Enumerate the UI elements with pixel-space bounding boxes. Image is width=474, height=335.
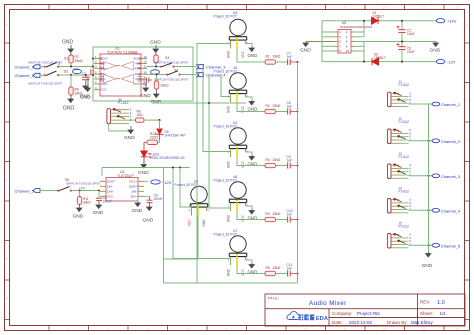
ground left of M1 (300, 42, 311, 54)
svg-text:REV:: REV: (420, 300, 430, 305)
M1 right pin stubs (351, 32, 355, 51)
svg-text:GND: GND (226, 214, 230, 222)
diode D2 (371, 53, 386, 66)
ground under LED1 (138, 157, 149, 176)
svg-text:3OUT: 3OUT (133, 82, 140, 86)
svg-text:Channel_1: Channel_1 (441, 102, 461, 107)
svg-text:R4: R4 (266, 212, 270, 216)
svg-text:Audio Mixer: Audio Mixer (309, 300, 347, 307)
jack J1 labels (399, 80, 410, 87)
svg-text:SWITCH TOGGLE SPST: SWITCH TOGGLE SPST (66, 182, 100, 186)
svg-text:GND: GND (226, 160, 230, 168)
svg-text:TITLE:: TITLE: (267, 296, 279, 301)
ground at U7 right pin (246, 260, 258, 275)
capacitor C8 (287, 101, 298, 115)
op-amp U1 amp B (121, 62, 134, 71)
wire U7 wiper to R5 (237, 266, 265, 274)
U3 left pin stubs (100, 181, 106, 196)
wire U4 input (180, 168, 192, 208)
svg-text:PJ-612: PJ-612 (399, 120, 410, 124)
svg-text:Channel_5: Channel_5 (441, 243, 461, 248)
junction M1 out top (363, 20, 365, 22)
switch S2 (28, 69, 68, 85)
flag Channel_3 output (432, 174, 461, 179)
resistor R8 (69, 87, 83, 96)
switch S5 (57, 178, 100, 192)
svg-text:9: 9 (344, 327, 346, 331)
jack J6 labels (118, 98, 129, 105)
flag Channel_1 (15, 65, 41, 70)
svg-text:2IN+: 2IN+ (101, 72, 107, 76)
svg-text:SWITCH TOGGLE SPST: SWITCH TOGGLE SPST (154, 77, 188, 81)
svg-text:1IN-: 1IN- (107, 184, 113, 188)
svg-text:GND: GND (73, 214, 84, 220)
title block texts (267, 296, 446, 325)
svg-text:PJ-612: PJ-612 (399, 83, 410, 87)
svg-text:32101000G040K00A01: 32101000G040K00A01 (340, 25, 373, 29)
svg-text:1uF: 1uF (287, 104, 293, 108)
svg-text:1.0: 1.0 (437, 300, 445, 306)
jack J6 body (107, 108, 132, 124)
ground under R8 (63, 95, 75, 112)
svg-text:2: 2 (68, 6, 70, 10)
resistor R5 (265, 266, 281, 276)
U1 pin names right column (133, 57, 140, 86)
svg-text:3IN+: 3IN+ (135, 72, 141, 76)
U1 pin names left column (101, 57, 108, 92)
svg-text:4: 4 (147, 327, 149, 331)
U3 right pin names (129, 184, 137, 198)
svg-text:Project #62: Project #62 (357, 311, 380, 316)
wire J1 to flag (409, 103, 433, 105)
svg-text:11: 11 (422, 6, 426, 10)
svg-text:GND: GND (202, 219, 206, 227)
svg-text:VCC-: VCC- (101, 88, 107, 92)
wire U7 input (173, 168, 231, 266)
junction M1 out bottom (363, 61, 365, 63)
svg-text:4IN+: 4IN+ (135, 66, 141, 70)
potentiometer U5 (214, 11, 249, 58)
svg-text:5: 5 (186, 327, 188, 331)
svg-text:Channel_3: Channel_3 (441, 174, 461, 179)
wire U5 wiper to R1 (237, 49, 265, 62)
svg-text:2IN-: 2IN- (101, 77, 106, 81)
op-amp U1 amp C (104, 75, 117, 84)
svg-text:2IN+: 2IN+ (131, 194, 138, 198)
wire down to U3 top (101, 168, 103, 177)
svg-text:33kΩ: 33kΩ (273, 104, 281, 108)
svg-text:Company:: Company: (332, 311, 353, 316)
svg-text:GND: GND (143, 218, 154, 224)
junction C5 top (98, 190, 100, 192)
svg-text:2: 2 (59, 62, 61, 66)
wire U6 wiper to R2 (237, 103, 265, 112)
ground wire into M1 pin 5 (306, 41, 334, 43)
svg-text:3IN-: 3IN- (135, 77, 140, 81)
wire -12V rail (322, 61, 370, 63)
wires M1 left pins to vertical (322, 32, 334, 51)
svg-text:VCC-: VCC- (107, 194, 114, 198)
op-amp U1 labels (107, 47, 137, 55)
svg-text:EDA: EDA (316, 316, 329, 322)
ground at U2 right pin (246, 152, 258, 167)
junction jack bus J4 (428, 209, 430, 211)
svg-text:E: E (6, 178, 8, 182)
flag Channel_2 output (432, 139, 461, 144)
M1 converter body (338, 30, 351, 54)
svg-text:5: 5 (186, 6, 188, 10)
capacitor C4 under U1 right (141, 78, 152, 87)
svg-text:SWITCH TOGGLE SPST: SWITCH TOGGLE SPST (28, 81, 62, 85)
svg-text:F: F (6, 218, 8, 222)
resistor R10 (154, 53, 158, 67)
resistor R4 (265, 212, 281, 222)
wire U1 to S4 (147, 74, 168, 76)
svg-text:220Ω: 220Ω (150, 136, 159, 140)
svg-text:1uF: 1uF (287, 55, 293, 59)
svg-text:GND: GND (430, 48, 441, 54)
junction C2 bottom (401, 61, 403, 63)
junction jack bus J5 (428, 244, 430, 246)
wire U8 input (209, 75, 231, 209)
ground under C5 (93, 201, 104, 216)
switch S4 (154, 69, 188, 82)
svg-text:PJ-612: PJ-612 (399, 155, 410, 159)
GND above R10 (150, 40, 161, 53)
svg-text:Project_62 POT: Project_62 POT (175, 183, 198, 187)
resistor R9 (154, 74, 169, 90)
svg-text:GND: GND (422, 263, 433, 269)
svg-text:Date:: Date: (332, 320, 343, 325)
svg-text:12: 12 (455, 327, 459, 331)
frame ruler ticks right (465, 43, 470, 320)
svg-text:GND: GND (63, 106, 75, 112)
svg-text:Max Ellzey: Max Ellzey (411, 320, 434, 325)
wires M1 right pins (355, 32, 364, 51)
svg-text:GND: GND (248, 53, 258, 58)
switch S1 (28, 57, 68, 68)
ground under J6 (109, 124, 135, 141)
svg-text:8: 8 (305, 6, 307, 10)
svg-text:Channel_1: Channel_1 (15, 65, 35, 70)
svg-text:VCC: VCC (241, 160, 245, 167)
svg-text:C3: C3 (82, 72, 86, 76)
flag Channel_4 (197, 73, 227, 78)
svg-text:S1: S1 (64, 57, 68, 61)
svg-text:14: 14 (144, 55, 148, 59)
resistor R2 (265, 104, 281, 114)
svg-text:11: 11 (422, 327, 426, 331)
svg-text:GND: GND (151, 99, 162, 105)
svg-text:3: 3 (107, 327, 109, 331)
svg-text:GND: GND (248, 107, 258, 112)
resistor R12 (144, 132, 160, 151)
wire J5 to flag (409, 244, 433, 246)
svg-text:Channel_2: Channel_2 (15, 73, 35, 78)
svg-text:100nF: 100nF (154, 197, 163, 201)
svg-text:E: E (466, 178, 468, 182)
U3 left pin names (107, 179, 115, 193)
svg-text:GND: GND (132, 208, 143, 214)
flag -12V (436, 60, 456, 65)
svg-text:I: I (7, 320, 8, 324)
junction node U1 left rail2 (92, 74, 94, 76)
svg-text:12: 12 (144, 65, 148, 69)
svg-text:GND: GND (226, 105, 230, 113)
wire U1 to S3 (147, 66, 162, 68)
LED1 (141, 151, 185, 160)
wire R3 to C9 (276, 165, 288, 167)
capacitor C2 (397, 42, 415, 62)
wire horizontal feed above U3 (102, 167, 190, 169)
wire U8 wiper to R4 (237, 212, 265, 220)
svg-text:Project_62 POT: Project_62 POT (214, 178, 237, 182)
svg-text:GND: GND (150, 40, 161, 46)
svg-text:1: 1 (28, 327, 30, 331)
junction bus row R5 (296, 272, 298, 274)
junction R10 bottom (155, 66, 157, 68)
op-amp U3 body (106, 178, 138, 202)
diode D5 zener (156, 129, 187, 140)
ground right of C1/C2 (430, 42, 441, 54)
resistor R1 (265, 54, 281, 64)
flag +12V at U3 (144, 180, 172, 185)
svg-text:1IN+: 1IN+ (101, 66, 107, 70)
flag Channel_4 output (432, 208, 461, 213)
svg-text:4: 4 (147, 6, 149, 10)
junction node (71,66.5) (70, 65, 72, 67)
svg-text:33kΩ: 33kΩ (273, 266, 281, 270)
resistor R6 (129, 110, 160, 123)
svg-text:I: I (467, 320, 468, 324)
svg-text:9: 9 (344, 6, 346, 10)
capacitor C1 (397, 21, 415, 42)
wire U5 input (197, 42, 231, 283)
U1 right pin stubs (141, 59, 147, 84)
wire J4 to flag (409, 209, 433, 211)
svg-text:R1: R1 (266, 54, 270, 58)
frame ruler ticks top (49, 5, 444, 10)
junction node U1 left rail1 (92, 66, 94, 68)
jack J4 body (387, 198, 411, 213)
wire S5 to U3 (72, 190, 100, 192)
svg-text:4OUT: 4OUT (133, 57, 140, 61)
svg-text:-12V: -12V (447, 60, 456, 65)
ground under C6 (143, 203, 154, 224)
wire U4 wiper down to bottom loop (164, 216, 199, 259)
svg-text:1/1: 1/1 (440, 311, 447, 316)
EasyEDA logo (287, 312, 329, 322)
svg-text:8: 8 (305, 327, 307, 331)
op-amp U1 amp D (121, 75, 134, 84)
svg-text:VCC+: VCC+ (129, 179, 137, 183)
junction bus row R2 (296, 110, 298, 112)
ground under C4 (140, 83, 151, 100)
svg-text:33kΩ: 33kΩ (75, 59, 83, 63)
svg-text:GND: GND (140, 93, 151, 99)
title block (265, 294, 465, 326)
svg-text:S3: S3 (165, 56, 169, 60)
ground under jacks (422, 252, 433, 269)
junction R6 out (158, 119, 160, 121)
svg-text:S2: S2 (64, 69, 68, 73)
junction bus row R4 (296, 218, 298, 220)
svg-text:2OUT: 2OUT (129, 184, 137, 188)
U1 internal pin marks (100, 63, 141, 81)
wire right collector vertical bottom (363, 42, 365, 62)
wire J3 to flag (409, 175, 433, 177)
wire R2 to C8 (276, 111, 288, 113)
wire J2 to flag (409, 140, 433, 142)
junction bus row R1 (296, 61, 298, 63)
mixing bus vertical (297, 62, 299, 283)
wire R5 to C11 (276, 273, 288, 275)
svg-text:PJ-612: PJ-612 (399, 190, 410, 194)
svg-text:7: 7 (265, 327, 267, 331)
wire channel2 to S2 (40, 74, 44, 76)
wire R1 to C7 (276, 61, 288, 63)
resistor R3 (265, 158, 281, 168)
svg-text:2022-12-02: 2022-12-02 (349, 320, 373, 325)
svg-text:10uF: 10uF (407, 32, 415, 36)
wire channel1 to S1 (40, 66, 44, 68)
GND (top of R7) (62, 40, 74, 53)
svg-text:100nF: 100nF (103, 199, 112, 203)
svg-text:Channel_2: Channel_2 (441, 139, 461, 144)
jack J5 body (387, 233, 411, 248)
svg-text:Project_62 POT: Project_62 POT (214, 232, 237, 236)
svg-text:1: 1 (169, 62, 171, 66)
wire R4 to C10 (276, 219, 288, 221)
capacitor C11 (287, 263, 298, 277)
op-amp U1 amp A (104, 62, 117, 71)
junction U7 feed (172, 167, 174, 169)
M1 left pin stubs (334, 32, 338, 51)
middle GND rail through C1 C2 (355, 41, 436, 43)
svg-text:1kΩ: 1kΩ (137, 113, 143, 117)
svg-text:GND: GND (226, 268, 230, 276)
svg-text:GND: GND (226, 50, 230, 58)
jack J3 body (387, 163, 411, 178)
junction node U1 left top (92, 58, 94, 60)
wire left supply vertical (321, 21, 323, 62)
U3 right pin stubs (138, 181, 144, 196)
svg-text:6: 6 (226, 327, 228, 331)
junction jack bus J2 (428, 140, 430, 142)
svg-text:10uF: 10uF (407, 50, 415, 54)
U1 pin-end red marks (100, 58, 141, 80)
capacitor C10 (287, 209, 298, 223)
junction C2 mid (401, 41, 403, 43)
potentiometer U2 (214, 121, 249, 168)
wire S1 to U1 (59, 66, 93, 68)
junction on feed wire (179, 166, 181, 168)
svg-text:4IN-: 4IN- (135, 61, 140, 65)
svg-text:33kΩ: 33kΩ (273, 54, 281, 58)
svg-text:GND: GND (93, 210, 104, 216)
svg-text:SWITCH TOGGLE SPST: SWITCH TOGGLE SPST (154, 60, 188, 64)
ground left of U1 (80, 77, 91, 101)
net port oval U1 right (151, 70, 160, 74)
svg-text:VCC: VCC (241, 268, 245, 275)
svg-text:33kΩ: 33kΩ (161, 83, 169, 87)
svg-text:33kΩ: 33kΩ (273, 212, 281, 216)
U1 pin numbers left (95, 55, 97, 90)
svg-text:2IN-: 2IN- (131, 189, 137, 193)
svg-text:VCC: VCC (241, 50, 245, 57)
junction bus row R3 (296, 164, 298, 166)
svg-text:Project_62 POT: Project_62 POT (214, 124, 237, 128)
ground at U6 right pin (246, 97, 258, 112)
svg-text:33kΩ: 33kΩ (273, 158, 281, 162)
ground under R9 (151, 89, 162, 105)
capacitor C9 (287, 155, 298, 169)
svg-text:R3: R3 (266, 158, 270, 162)
svg-text:GND: GND (80, 95, 91, 101)
ground at U5 right pin (246, 44, 258, 59)
potentiometer U6 (214, 66, 249, 113)
wire S4 to flag (181, 74, 197, 76)
junction jack bus J3 (428, 175, 430, 177)
svg-text:F: F (466, 218, 468, 222)
svg-text:GND: GND (62, 40, 74, 46)
jack J3 labels (399, 152, 410, 159)
wire channel5 to S5 (40, 190, 57, 192)
ground at U8 right pin (246, 206, 258, 221)
svg-text:GND: GND (300, 48, 311, 54)
svg-text:1OUT: 1OUT (107, 179, 115, 183)
svg-text:10: 10 (383, 6, 387, 10)
svg-text:Project_62 POT: Project_62 POT (214, 14, 237, 18)
net port oval (73, 67, 82, 74)
resistor R7 (69, 53, 83, 67)
U1 left pin stubs (94, 59, 100, 90)
svg-text:R5: R5 (266, 266, 270, 270)
svg-text:VCC: VCC (187, 219, 191, 226)
wire U2 input (203, 67, 231, 152)
svg-text:1uF: 1uF (287, 212, 293, 216)
diode D1 (372, 11, 385, 24)
svg-text:1uF: 1uF (287, 266, 293, 270)
svg-text:6: 6 (226, 6, 228, 10)
jack J2 body (387, 128, 411, 143)
svg-text:SSO-2SURD/S530-A3: SSO-2SURD/S530-A3 (152, 156, 185, 160)
svg-text:1IN+: 1IN+ (107, 189, 114, 193)
svg-text:12: 12 (455, 6, 459, 10)
ground under R11 (73, 205, 84, 220)
wire junction down to D5 (159, 120, 161, 128)
svg-text:R2: R2 (266, 104, 270, 108)
wire R8 top (70, 75, 72, 87)
jack ground bus vertical (428, 104, 430, 252)
svg-text:10: 10 (144, 70, 148, 74)
junction U8 input (208, 102, 210, 104)
flag Channel_1 output (432, 102, 461, 107)
frame ruler ticks left (5, 43, 10, 320)
jack J1 body (387, 91, 411, 106)
svg-text:2: 2 (68, 327, 70, 331)
jack J2 labels (399, 117, 410, 124)
potentiometer U7 (214, 229, 249, 276)
flag Channel_3 (197, 65, 227, 70)
U3 labels (117, 170, 134, 178)
svg-text:Channel_4: Channel_4 (441, 208, 461, 213)
svg-text:VCC+: VCC+ (133, 52, 140, 56)
svg-text:33kΩ: 33kΩ (83, 200, 91, 204)
wire green loop around U1 (93, 47, 193, 101)
jack J4 labels (399, 186, 410, 193)
ground under C9 (80, 82, 90, 99)
